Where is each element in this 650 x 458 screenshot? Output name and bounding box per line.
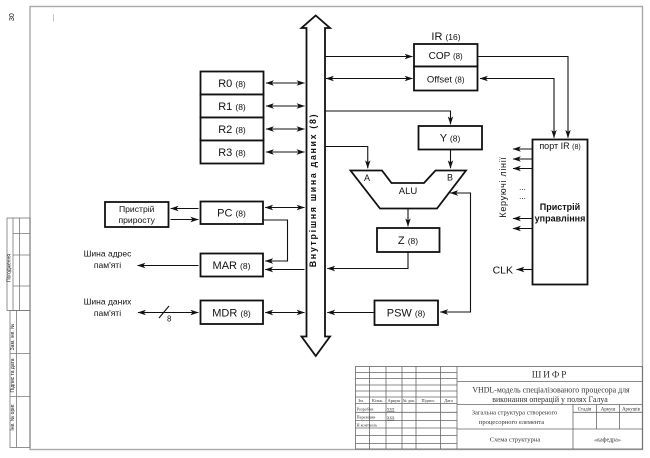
svg-text:Offset (8): Offset (8) (427, 75, 465, 86)
svg-text:B: B (447, 173, 453, 183)
svg-text:Зм.: Зм. (358, 398, 364, 403)
svg-text:CLK: CLK (493, 265, 513, 277)
svg-text:Перевірив: Перевірив (357, 415, 376, 420)
svg-text:A: A (364, 173, 370, 183)
svg-text:ххх: ххх (387, 416, 395, 421)
svg-text:30: 30 (9, 13, 16, 21)
svg-text:пам'яті: пам'яті (94, 260, 121, 270)
svg-text:MAR (8): MAR (8) (213, 260, 251, 272)
svg-text:Підпис та дата: Підпис та дата (10, 358, 16, 392)
svg-text:Шина даних: Шина даних (84, 297, 132, 307)
svg-text:Аркуш: Аркуш (601, 407, 616, 412)
svg-text:приросту: приросту (118, 215, 155, 225)
svg-text:Інв. № ориг.: Інв. № ориг. (10, 403, 16, 430)
svg-text:Розробив: Розробив (357, 406, 374, 411)
svg-text:Загальна структура створеного: Загальна структура створеного (472, 410, 558, 417)
svg-text:IR (16): IR (16) (431, 31, 460, 43)
svg-text:Стадія: Стадія (578, 407, 592, 412)
svg-text:Схема структурна: Схема структурна (490, 437, 541, 444)
svg-text:Дата: Дата (444, 398, 453, 403)
svg-text:R1 (8): R1 (8) (218, 101, 246, 113)
svg-text:Кільк.: Кільк. (372, 398, 383, 403)
svg-text:R2 (8): R2 (8) (218, 124, 246, 136)
svg-text:ххх: ххх (387, 408, 395, 413)
svg-text:виконання операцій у полях Гал: виконання операцій у полях Галуа (492, 395, 608, 404)
svg-text:COP (8): COP (8) (429, 51, 463, 62)
svg-text:R0 (8): R0 (8) (218, 78, 246, 90)
svg-text:Н контроль: Н контроль (357, 422, 378, 427)
svg-text:Пристрій: Пристрій (119, 204, 155, 214)
svg-text:...: ... (519, 183, 526, 192)
svg-text:R3 (8): R3 (8) (218, 147, 246, 159)
svg-text:Зам. інв. №: Зам. інв. № (10, 324, 16, 351)
svg-text:№ док.: № док. (403, 398, 416, 403)
svg-text:управління: управління (535, 214, 586, 224)
svg-text:«кафедра»: «кафедра» (594, 437, 621, 444)
svg-text:VHDL-модель спеціалізованого п: VHDL-модель спеціалізованого процесора д… (472, 386, 630, 395)
svg-text:пам'яті: пам'яті (94, 308, 121, 318)
svg-text:Z (8): Z (8) (398, 235, 418, 247)
svg-text:PSW (8): PSW (8) (387, 308, 426, 320)
svg-text:Аркушів: Аркушів (622, 407, 641, 412)
svg-text:8: 8 (167, 315, 172, 324)
svg-text:ШИФР: ШИФР (532, 371, 568, 381)
svg-text:MDR (8): MDR (8) (212, 308, 251, 320)
svg-text:...: ... (519, 192, 526, 201)
svg-text:Керуючі лінії: Керуючі лінії (498, 156, 508, 217)
svg-text:ALU: ALU (399, 186, 418, 197)
svg-text:Шина адрес: Шина адрес (84, 249, 132, 259)
svg-text:Погодження: Погодження (7, 254, 13, 282)
svg-text:Підпис: Підпис (422, 398, 435, 403)
svg-text:Y (8): Y (8) (440, 133, 461, 145)
svg-text:Внутрішня шина даних (8): Внутрішня шина даних (8) (308, 113, 318, 268)
svg-text:Пристрій: Пристрій (540, 202, 580, 212)
svg-text:Аркуш: Аркуш (388, 398, 401, 403)
svg-text:PC (8): PC (8) (217, 208, 246, 220)
svg-text:процесорного елемента: процесорного елемента (479, 419, 544, 426)
